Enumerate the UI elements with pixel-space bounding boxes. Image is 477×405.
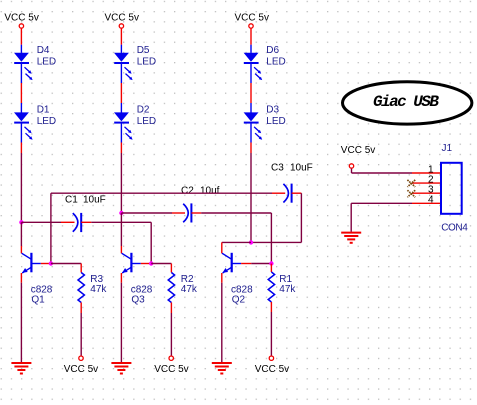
LED D4: [14, 45, 33, 83]
wire: [41, 263, 51, 265]
wire: [20, 283, 22, 363]
resistor R1: [268, 272, 274, 302]
label R2 47k: [181, 274, 198, 295]
label D5: [137, 45, 156, 68]
ground: [212, 363, 232, 374]
svg-text:D2: D2: [137, 105, 150, 116]
ground: [111, 363, 131, 374]
wire: [20, 222, 22, 246]
svg-text:D3: D3: [266, 105, 279, 116]
label Q2 c828: [231, 285, 253, 306]
wire: [20, 273, 22, 283]
power VCC 5v (connector): [341, 145, 375, 168]
wire: [120, 246, 122, 253]
svg-text:C2: C2: [181, 186, 194, 197]
svg-text:10uf: 10uf: [200, 186, 220, 197]
wire: [250, 143, 252, 154]
label D2: [137, 105, 156, 128]
node C junction (chain3/Q2 collector): [249, 240, 253, 244]
label C2 10uf: [181, 186, 220, 197]
pin 3: [412, 185, 441, 196]
wire: [170, 313, 172, 356]
capacitor C3: [283, 184, 291, 203]
wire: [250, 153, 252, 242]
wire: [241, 263, 251, 265]
svg-text:Giac USB: Giac USB: [373, 93, 439, 111]
wire: [91, 222, 151, 263]
svg-text:LED: LED: [37, 116, 56, 127]
wire: [270, 312, 272, 356]
pin 1: [412, 164, 441, 175]
node A junction (chain1/Q1 collector): [19, 220, 23, 224]
capacitor C2: [183, 203, 191, 222]
label C1 10uF: [65, 195, 106, 206]
label Q3 c828: [131, 285, 153, 306]
wire: [151, 263, 171, 265]
wire: [50, 193, 52, 263]
node E junction (Q3 base): [149, 261, 153, 265]
wire: [80, 303, 82, 314]
svg-text:47k: 47k: [279, 284, 296, 295]
pin 2: [412, 174, 441, 185]
resistor R3: [78, 273, 84, 303]
wire: [270, 302, 272, 312]
power VCC 5v (below R1): [255, 356, 289, 375]
connector J1 CON4: [441, 143, 468, 234]
wire: [292, 192, 302, 194]
ground (connector): [341, 233, 361, 243]
wire: [300, 193, 302, 242]
svg-text:10uF: 10uF: [83, 195, 106, 206]
wire: [81, 221, 91, 223]
wire: [120, 273, 122, 283]
svg-text:Q2: Q2: [232, 294, 246, 305]
wire: [201, 213, 271, 264]
svg-text:LED: LED: [37, 57, 56, 68]
svg-text:VCC 5v: VCC 5v: [105, 12, 139, 23]
svg-text:CON4: CON4: [441, 223, 468, 234]
pin 4: [412, 195, 441, 206]
power VCC 5v (chain 2 top): [105, 12, 139, 28]
wire: [120, 143, 122, 154]
LED D3: [244, 103, 263, 143]
svg-text:C3: C3: [271, 163, 284, 174]
wire: [172, 212, 185, 214]
wire: [170, 264, 172, 273]
label Q1 c828: [31, 285, 53, 306]
wire: [251, 241, 301, 243]
node F junction (Q2 base): [269, 261, 273, 265]
LED D1: [14, 103, 33, 143]
wire: [170, 303, 172, 314]
wire: [251, 263, 271, 265]
wire: [20, 246, 22, 253]
wire: [272, 192, 285, 194]
svg-text:D6: D6: [266, 45, 279, 56]
svg-text:LED: LED: [266, 116, 285, 127]
svg-text:C1: C1: [65, 195, 78, 206]
svg-text:J1: J1: [442, 143, 453, 154]
wire: [141, 263, 151, 265]
power VCC 5v (below R2): [154, 356, 188, 375]
wire: [221, 242, 223, 253]
LED D2: [114, 103, 133, 143]
wire: [120, 213, 122, 246]
node D junction (Q1 base): [49, 261, 53, 265]
wire: [80, 264, 82, 273]
svg-text:D5: D5: [137, 45, 150, 56]
label C3 10uF: [271, 163, 313, 174]
svg-text:D1: D1: [37, 105, 50, 116]
wire: [120, 29, 122, 45]
logo ellipse Giac USB: [343, 82, 472, 124]
transistor Q2: [222, 253, 241, 273]
no-connect X (pin 2): [407, 180, 415, 187]
svg-text:47k: 47k: [90, 284, 107, 295]
svg-text:VCC 5v: VCC 5v: [341, 145, 375, 156]
wire: [21, 221, 61, 223]
wire: [20, 83, 22, 103]
svg-text:VCC 5v: VCC 5v: [235, 12, 269, 23]
power VCC 5v (chain 1 top): [4, 12, 38, 28]
svg-text:Q1: Q1: [31, 294, 45, 305]
svg-text:VCC 5v: VCC 5v: [154, 364, 188, 375]
capacitor C1: [73, 213, 81, 232]
wire: [20, 29, 22, 45]
transistor Q1: [22, 253, 41, 273]
wire: [120, 83, 122, 103]
wire: [221, 283, 223, 363]
label D6: [266, 45, 285, 68]
label R1 47k: [279, 274, 296, 295]
svg-text:Q3: Q3: [131, 294, 145, 305]
no-connect X (pin 3): [407, 190, 415, 197]
wire: [61, 221, 75, 223]
LED D6: [244, 45, 263, 83]
svg-text:VCC 5v: VCC 5v: [4, 12, 38, 23]
svg-text:VCC 5v: VCC 5v: [64, 364, 98, 375]
power VCC 5v (below R3): [64, 356, 98, 375]
wire: [221, 273, 223, 283]
label D4: [37, 45, 56, 68]
wire: [351, 203, 412, 232]
wire: [270, 264, 272, 273]
label R3 47k: [90, 274, 107, 295]
wire: [20, 153, 22, 222]
transistor Q3: [122, 253, 141, 273]
wire: [352, 169, 413, 173]
LED D5: [114, 45, 133, 83]
label D1: [37, 105, 56, 128]
wire: [20, 143, 22, 154]
svg-text:47k: 47k: [181, 284, 198, 295]
wire: [222, 241, 251, 243]
wire: [250, 29, 252, 45]
wire: [80, 313, 82, 356]
wire: [121, 212, 172, 214]
svg-text:LED: LED: [266, 57, 285, 68]
svg-text:LED: LED: [137, 116, 156, 127]
svg-text:10uF: 10uF: [290, 163, 313, 174]
wire: [120, 153, 122, 213]
svg-text:D4: D4: [37, 45, 50, 56]
wire: [51, 263, 81, 266]
svg-text:4: 4: [428, 195, 434, 206]
wire: [191, 212, 201, 214]
node B junction (chain2/Q3 collector): [119, 211, 123, 215]
power VCC 5v (chain 3 top): [235, 12, 269, 28]
wire: [120, 283, 122, 363]
wire: [250, 83, 252, 103]
label D3: [266, 105, 285, 128]
ground: [11, 363, 31, 374]
resistor R2: [168, 273, 174, 303]
svg-text:VCC 5v: VCC 5v: [255, 364, 289, 375]
wire: [51, 192, 272, 194]
svg-text:LED: LED: [137, 57, 156, 68]
